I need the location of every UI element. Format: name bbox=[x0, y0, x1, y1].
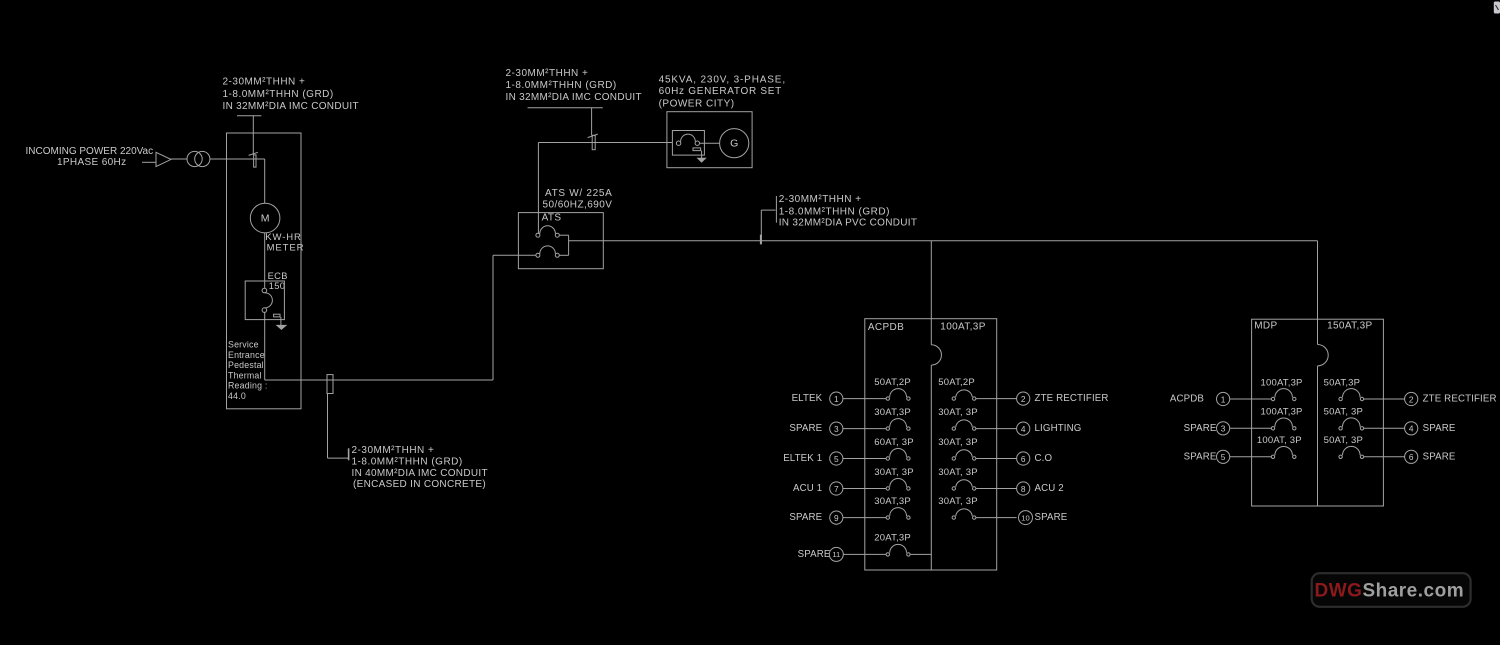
wire ECB to bottom feeder bbox=[264, 312, 266, 380]
svg-text:10: 10 bbox=[1021, 513, 1029, 522]
panel MDP box bbox=[1252, 319, 1384, 506]
ACPDB row 3 left wire bbox=[843, 428, 865, 430]
breaker bar on generator feed bbox=[592, 135, 595, 149]
ECB breaker arc bbox=[265, 293, 273, 308]
ACPDB row 9 left number circle 9 bbox=[830, 511, 843, 524]
svg-text:1PHASE 60Hz: 1PHASE 60Hz bbox=[57, 157, 126, 168]
svg-text:(ENCASED IN CONCRETE): (ENCASED IN CONCRETE) bbox=[353, 479, 486, 490]
MDP row 1 right wire bbox=[1364, 398, 1405, 400]
svg-text:IN 32MM²DIA IMC CONDUIT: IN 32MM²DIA IMC CONDUIT bbox=[223, 101, 359, 112]
bottom feeder wire bbox=[265, 379, 493, 381]
ACPDB row 1 right number circle 2 bbox=[1017, 392, 1030, 405]
ACPDB row 3 right wire bbox=[976, 428, 1017, 430]
MDP row 1 left wire bbox=[1230, 398, 1252, 400]
svg-text:METER: METER bbox=[267, 242, 305, 253]
svg-text:100AT,3P: 100AT,3P bbox=[1261, 377, 1303, 388]
svg-text:1-8.0MM²THHN (GRD): 1-8.0MM²THHN (GRD) bbox=[352, 457, 463, 468]
ACPDB feed riser bbox=[930, 241, 932, 319]
main bus wire bbox=[569, 240, 1318, 242]
ACPDB row 11 left wire bbox=[843, 553, 865, 555]
svg-text:50/60HZ,690V: 50/60HZ,690V bbox=[543, 200, 613, 211]
ATS top arc bbox=[540, 226, 556, 234]
svg-text:2-30MM²THHN +: 2-30MM²THHN + bbox=[223, 77, 306, 88]
leader wire bottom note bbox=[327, 394, 329, 459]
ACPDB row 9 left wire bbox=[843, 517, 865, 519]
svg-text:KW-HR: KW-HR bbox=[265, 232, 302, 243]
svg-text:2: 2 bbox=[1021, 394, 1026, 404]
wire to ATS box bbox=[493, 254, 536, 256]
svg-text:SPARE: SPARE bbox=[789, 423, 822, 434]
svg-text:MDP: MDP bbox=[1254, 320, 1277, 331]
MDP row 5 left wire bbox=[1230, 456, 1252, 458]
service entrance box bbox=[227, 133, 302, 409]
svg-text:1: 1 bbox=[1221, 394, 1226, 404]
wire meter to ECB bbox=[264, 233, 266, 288]
transformer T1 bbox=[187, 151, 202, 166]
MDP row 5 right number circle 6 bbox=[1405, 450, 1418, 463]
svg-text:30AT, 3P: 30AT, 3P bbox=[938, 496, 977, 507]
riser wire to ATS utility side bbox=[492, 255, 494, 380]
svg-text:SPARE: SPARE bbox=[1423, 423, 1456, 434]
conduit marker bbox=[327, 375, 333, 394]
svg-text:6: 6 bbox=[1409, 452, 1414, 462]
generator ground pad bbox=[693, 148, 701, 151]
leader tick bottom note bbox=[348, 448, 350, 460]
wire stub before arrow bbox=[142, 161, 156, 163]
service disconnect slash bbox=[249, 152, 258, 155]
arrow incoming power bbox=[156, 152, 171, 166]
svg-text:8: 8 bbox=[1021, 484, 1026, 494]
svg-text:ACPDB: ACPDB bbox=[1170, 394, 1204, 405]
ACPDB row 1 left number circle 1 bbox=[830, 392, 843, 405]
ACPDB row 1 right wire bbox=[976, 398, 1017, 400]
svg-text:(POWER CITY): (POWER CITY) bbox=[659, 99, 735, 110]
MDP divider lower bbox=[1317, 366, 1319, 506]
svg-text:ECB: ECB bbox=[268, 271, 288, 281]
top-right ui blob bbox=[1494, 2, 1500, 14]
ACPDB row 3 right number circle 4 bbox=[1017, 422, 1030, 435]
ECB ground wire bbox=[280, 317, 282, 326]
svg-text:50AT,2P: 50AT,2P bbox=[938, 377, 975, 388]
ATS bottom contact left bbox=[536, 253, 540, 257]
svg-text:2-30MM²THHN +: 2-30MM²THHN + bbox=[506, 68, 589, 79]
svg-text:60AT, 3P: 60AT, 3P bbox=[874, 437, 913, 448]
svg-text:60Hz GENERATOR SET: 60Hz GENERATOR SET bbox=[659, 86, 782, 97]
svg-text:ATS W/ 225A: ATS W/ 225A bbox=[545, 188, 613, 199]
svg-text:ZTE RECTIFIER: ZTE RECTIFIER bbox=[1035, 393, 1109, 404]
ACPDB row 1 left wire bbox=[843, 398, 865, 400]
svg-text:SPARE: SPARE bbox=[1423, 451, 1456, 462]
ATS bottom contact right bbox=[555, 253, 559, 257]
leader underline top-left bbox=[237, 115, 261, 117]
generator breaker arc bbox=[681, 134, 696, 141]
ACPDB row 7 right number circle 8 bbox=[1017, 482, 1030, 495]
svg-text:SPARE: SPARE bbox=[1035, 512, 1068, 523]
ATS output step wires bbox=[559, 234, 568, 236]
svg-text:150AT,3P: 150AT,3P bbox=[1327, 320, 1372, 331]
generator breaker box bbox=[672, 131, 704, 156]
leader underline top-center bbox=[528, 107, 603, 109]
kwhr meter M1 circle bbox=[250, 203, 280, 233]
leader riser top-center bbox=[591, 108, 593, 136]
svg-text:Service: Service bbox=[228, 340, 259, 350]
generator ground wire bbox=[701, 151, 703, 159]
svg-text:Entrance: Entrance bbox=[228, 350, 265, 360]
ACPDB row 11 left number circle 11 bbox=[829, 547, 843, 561]
MDP row 3 left number circle 3 bbox=[1217, 422, 1230, 435]
svg-text:100AT, 3P: 100AT, 3P bbox=[1257, 435, 1302, 446]
MDP row 1 right number circle 2 bbox=[1405, 392, 1418, 405]
ECB ground arrow bbox=[277, 325, 286, 329]
svg-text:1-8.0MM²THHN (GRD): 1-8.0MM²THHN (GRD) bbox=[779, 206, 890, 217]
svg-text:2-30MM²THHN +: 2-30MM²THHN + bbox=[779, 194, 862, 205]
svg-text:M: M bbox=[261, 212, 270, 224]
ACPDB row 7 left wire bbox=[843, 488, 865, 490]
svg-text:ACU 2: ACU 2 bbox=[1035, 483, 1064, 494]
svg-text:7: 7 bbox=[834, 484, 839, 494]
svg-text:LIGHTING: LIGHTING bbox=[1035, 423, 1082, 434]
svg-text:SPARE: SPARE bbox=[798, 549, 831, 560]
ACPDB row 9 right wire bbox=[976, 517, 1017, 519]
svg-text:1-8.0MM²THHN (GRD): 1-8.0MM²THHN (GRD) bbox=[223, 89, 334, 100]
svg-text:50AT, 3P: 50AT, 3P bbox=[1324, 407, 1363, 418]
svg-text:Thermal: Thermal bbox=[228, 370, 262, 380]
svg-text:ACU 1: ACU 1 bbox=[793, 483, 822, 494]
svg-text:5: 5 bbox=[834, 454, 839, 464]
MDP row 5 right wire bbox=[1364, 456, 1405, 458]
MDP row 3 left wire bbox=[1230, 427, 1252, 429]
svg-text:ACPDB: ACPDB bbox=[868, 322, 904, 333]
ATS box U2 bbox=[518, 213, 603, 269]
ATS bottom arc bbox=[540, 246, 556, 254]
svg-text:30AT, 3P: 30AT, 3P bbox=[938, 407, 977, 418]
svg-text:SPARE: SPARE bbox=[1184, 451, 1217, 462]
ACPDB divider upper bbox=[930, 319, 932, 345]
breaker ECB box bbox=[245, 281, 284, 320]
svg-text:IN 32MM²DIA IMC CONDUIT: IN 32MM²DIA IMC CONDUIT bbox=[506, 92, 642, 103]
svg-text:150: 150 bbox=[269, 281, 286, 291]
svg-text:G: G bbox=[730, 138, 738, 150]
svg-text:SPARE: SPARE bbox=[1184, 423, 1217, 434]
generator set box bbox=[667, 112, 752, 168]
svg-text:100AT,3P: 100AT,3P bbox=[1261, 407, 1303, 418]
generator breaker contact left bbox=[676, 141, 680, 145]
service disconnect bar bbox=[254, 155, 256, 167]
ACPDB row 5 left number circle 5 bbox=[830, 452, 843, 465]
breaker slash on generator feed bbox=[588, 134, 598, 138]
MDP feed riser bbox=[1317, 241, 1319, 319]
svg-text:50AT,2P: 50AT,2P bbox=[874, 377, 911, 388]
ACPDB row 5 right wire bbox=[976, 458, 1017, 460]
ACPDB row 5 right number circle 6 bbox=[1017, 452, 1030, 465]
generator G1 circle bbox=[720, 129, 749, 158]
wire transformer into service box bbox=[210, 158, 265, 160]
svg-text:20AT,3P: 20AT,3P bbox=[874, 533, 911, 544]
svg-text:30AT, 3P: 30AT, 3P bbox=[874, 467, 913, 478]
ATS top contact left bbox=[536, 233, 540, 237]
svg-text:9: 9 bbox=[834, 513, 839, 523]
generator breaker contact right bbox=[695, 141, 699, 145]
ACPDB row 5 left wire bbox=[843, 458, 865, 460]
watermark logo box bbox=[1312, 573, 1471, 607]
ATS generator feed riser bbox=[537, 143, 539, 234]
riser wire from leader to disconnect bbox=[252, 116, 254, 155]
svg-text:ATS: ATS bbox=[542, 213, 562, 224]
MDP row 3 right number circle 4 bbox=[1405, 422, 1418, 435]
junction tick on bus bbox=[760, 235, 762, 245]
svg-text:2-30MM²THHN +: 2-30MM²THHN + bbox=[352, 445, 435, 456]
svg-text:50AT, 3P: 50AT, 3P bbox=[1324, 435, 1363, 446]
svg-text:IN 32MM²DIA PVC CONDUIT: IN 32MM²DIA PVC CONDUIT bbox=[779, 217, 918, 228]
svg-text:ZTE RECTIFIER: ZTE RECTIFIER bbox=[1423, 394, 1497, 405]
ECB contact bottom bbox=[262, 308, 267, 313]
svg-text:30AT,3P: 30AT,3P bbox=[874, 407, 911, 418]
wire breaker to G bbox=[700, 142, 720, 144]
ACPDB divider lower bbox=[930, 365, 932, 570]
svg-text:4: 4 bbox=[1409, 424, 1414, 434]
ECB contact top bbox=[262, 288, 267, 293]
svg-text:ELTEK: ELTEK bbox=[792, 393, 823, 404]
leader tick right note bbox=[775, 196, 777, 223]
MDP row 3 right wire bbox=[1364, 427, 1405, 429]
svg-text:44.0: 44.0 bbox=[228, 391, 246, 401]
svg-text:2: 2 bbox=[1409, 394, 1414, 404]
svg-text:Pedestal: Pedestal bbox=[228, 360, 264, 370]
ACPDB row 7 right wire bbox=[976, 488, 1017, 490]
svg-text:1: 1 bbox=[834, 394, 839, 404]
wire down to meter bbox=[264, 159, 266, 203]
svg-text:30AT, 3P: 30AT, 3P bbox=[938, 437, 977, 448]
generator feed wire bbox=[538, 142, 672, 144]
MDP divider upper bbox=[1317, 319, 1319, 344]
ATS top contact right bbox=[555, 233, 559, 237]
ACPDB row 7 left number circle 7 bbox=[830, 482, 843, 495]
ACPDB main breaker 100AT,3P arc bbox=[931, 345, 941, 365]
svg-text:45KVA, 230V, 3-PHASE,: 45KVA, 230V, 3-PHASE, bbox=[659, 74, 786, 85]
svg-text:30AT, 3P: 30AT, 3P bbox=[938, 467, 977, 478]
wire arrow to transformer bbox=[171, 158, 187, 160]
svg-text:SPARE: SPARE bbox=[789, 512, 822, 523]
svg-text:1-8.0MM²THHN (GRD): 1-8.0MM²THHN (GRD) bbox=[506, 80, 617, 91]
svg-text:4: 4 bbox=[1021, 424, 1026, 434]
svg-text:100AT,3P: 100AT,3P bbox=[940, 322, 985, 333]
panel ACPDB box bbox=[865, 319, 997, 570]
svg-text:3: 3 bbox=[1221, 424, 1226, 434]
MDP row 5 left number circle 5 bbox=[1217, 450, 1230, 463]
ACPDB row 3 left number circle 3 bbox=[830, 422, 843, 435]
generator ground arrow bbox=[698, 158, 706, 162]
svg-text:11: 11 bbox=[832, 550, 840, 559]
svg-text:IN 40MM²DIA IMC CONDUIT: IN 40MM²DIA IMC CONDUIT bbox=[352, 468, 488, 479]
svg-text:5: 5 bbox=[1221, 452, 1226, 462]
MDP row 1 left number circle 1 bbox=[1217, 392, 1230, 405]
svg-text:INCOMING POWER 220Vac: INCOMING POWER 220Vac bbox=[26, 146, 154, 157]
svg-text:Reading :: Reading : bbox=[228, 381, 267, 391]
svg-text:DWGShare.com: DWGShare.com bbox=[1315, 580, 1465, 601]
ACPDB row 11 stub wire to divider bbox=[910, 553, 931, 555]
svg-text:50AT,3P: 50AT,3P bbox=[1324, 377, 1361, 388]
svg-text:30AT,3P: 30AT,3P bbox=[874, 496, 911, 507]
svg-text:ELTEK 1: ELTEK 1 bbox=[783, 453, 822, 464]
ACPDB row 9 right number circle 10 bbox=[1019, 511, 1033, 525]
leader wire right note bbox=[761, 209, 775, 211]
ECB ground pad bbox=[274, 314, 280, 317]
svg-text:6: 6 bbox=[1021, 454, 1026, 464]
svg-text:C.O: C.O bbox=[1035, 453, 1053, 464]
MDP main breaker 150AT,3P arc bbox=[1318, 345, 1329, 366]
svg-text:3: 3 bbox=[834, 424, 839, 434]
